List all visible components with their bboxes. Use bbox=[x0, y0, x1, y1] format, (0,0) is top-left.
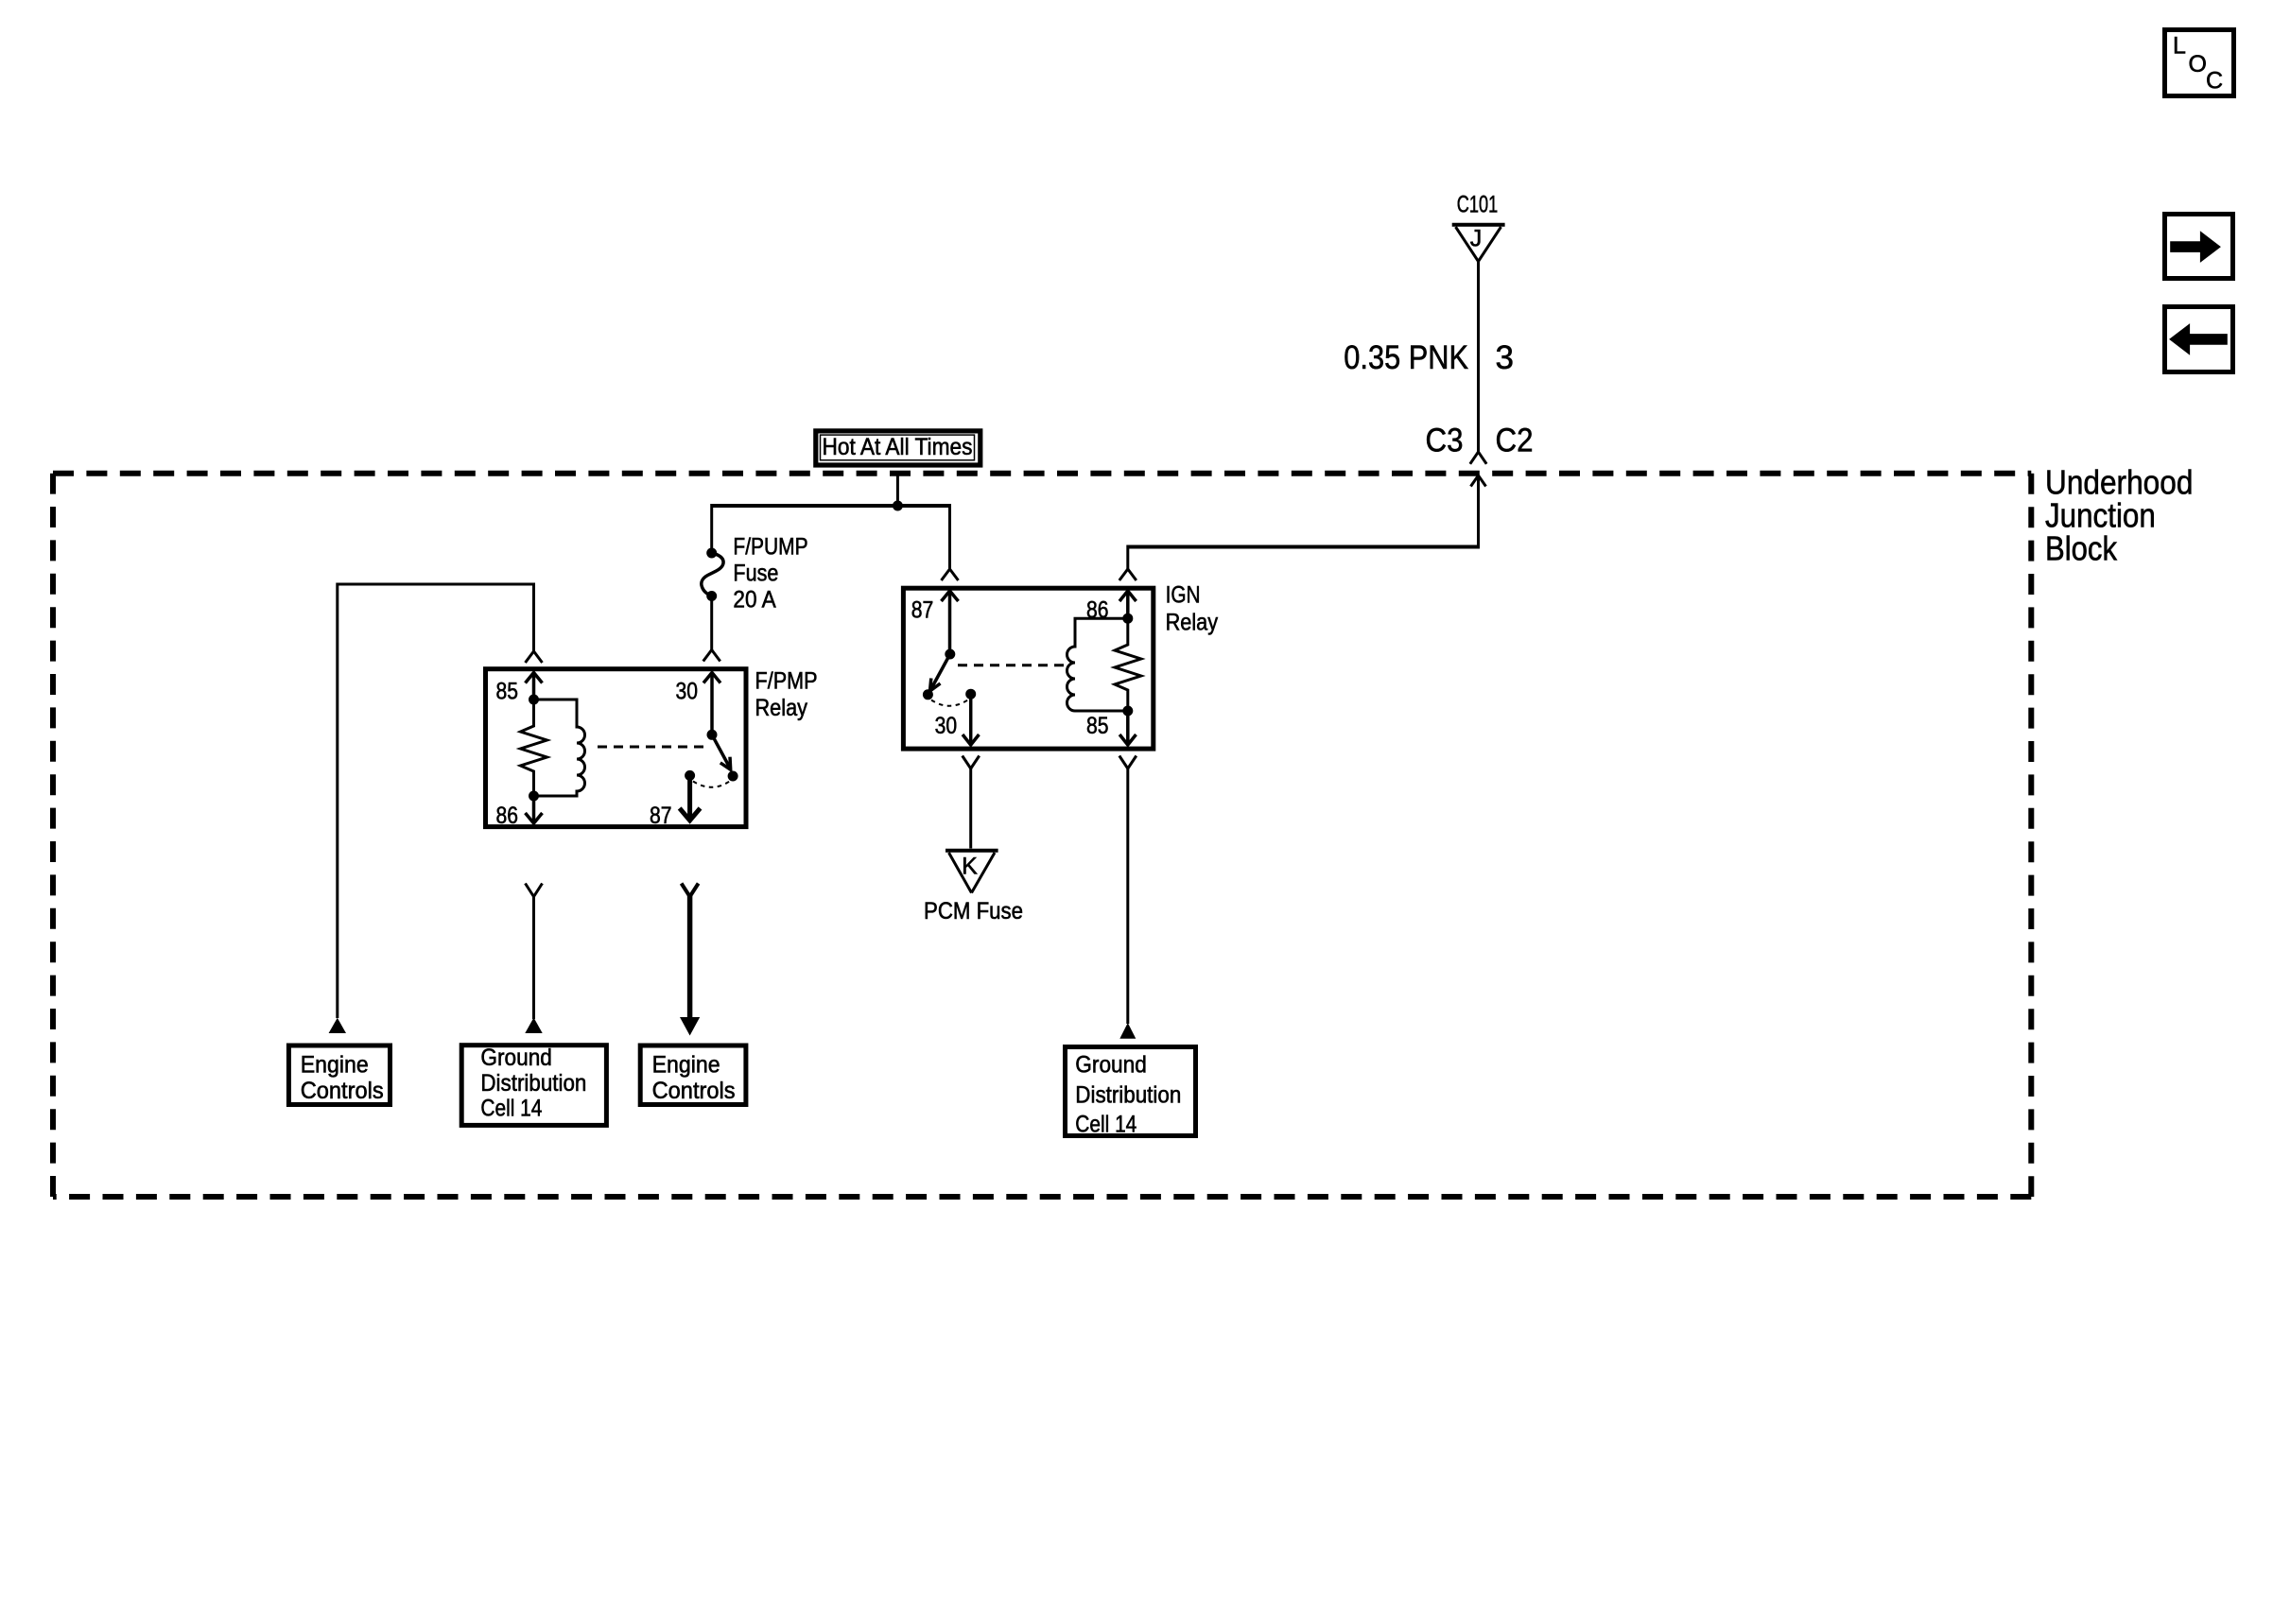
relay F/PMP box bbox=[486, 669, 747, 827]
label F/PMP Relay bbox=[755, 667, 818, 721]
connector chevron at IGN relay pin 87 bbox=[942, 569, 959, 580]
relay coil (IGN) bbox=[1067, 618, 1128, 711]
arrow into Engine Controls box (down) bbox=[680, 1017, 700, 1036]
svg-text:Engine: Engine bbox=[301, 1051, 369, 1078]
wire entering junction block with arrow bbox=[1128, 475, 1486, 569]
resistor in IGN relay bbox=[1115, 618, 1141, 711]
wire IGN pin 30 to PCM Fuse bbox=[969, 769, 972, 849]
svg-text:Engine: Engine bbox=[652, 1051, 720, 1078]
svg-text:Fuse: Fuse bbox=[733, 561, 778, 587]
label F/PUMP Fuse 20 A bbox=[733, 534, 807, 613]
connector C101 triangle J bbox=[1452, 225, 1505, 262]
svg-text:C: C bbox=[2206, 68, 2223, 95]
LOC legend icon bbox=[2165, 30, 2234, 96]
back-arrow icon bbox=[2165, 307, 2233, 372]
svg-text:Controls: Controls bbox=[652, 1078, 736, 1104]
fuse F/PUMP 20 A bbox=[702, 548, 723, 602]
svg-text:O: O bbox=[2189, 51, 2207, 78]
svg-text:0.35 PNK: 0.35 PNK bbox=[1344, 339, 1468, 376]
relay coil (F/PMP) bbox=[534, 700, 585, 796]
svg-text:J: J bbox=[1470, 226, 1483, 252]
node switch pivot dot (F/PMP) bbox=[707, 730, 718, 740]
connector chevron below F/PMP pin 86 bbox=[526, 884, 543, 897]
svg-text:C3: C3 bbox=[1426, 423, 1464, 459]
arrow into Ground Distribution Cell 14 (left) bbox=[525, 1018, 542, 1034]
wire IGN pin 85 to Ground Distribution bbox=[1126, 769, 1129, 1024]
svg-text:Relay: Relay bbox=[1166, 609, 1219, 635]
pin 85 arrow inside F/PMP relay bbox=[526, 673, 543, 700]
connector chevron at IGN relay pin 86 bbox=[1119, 569, 1136, 580]
svg-text:85: 85 bbox=[496, 678, 519, 704]
wire Engine Controls to F/PMP relay pin 85 bbox=[338, 584, 534, 1018]
svg-text:Distribution: Distribution bbox=[1075, 1082, 1181, 1109]
svg-text:85: 85 bbox=[1086, 713, 1109, 739]
node coil top dot (F/PMP) bbox=[529, 695, 539, 705]
svg-text:L: L bbox=[2173, 33, 2186, 60]
pin 30 arrow inside IGN relay bbox=[963, 694, 979, 745]
svg-text:Ground: Ground bbox=[480, 1045, 552, 1071]
Engine Controls box (left) bbox=[288, 1045, 390, 1105]
wire F/PMP pin 86 to Ground Distribution bbox=[532, 897, 535, 1020]
svg-text:F/PUMP: F/PUMP bbox=[733, 534, 807, 561]
node switch contact dot (IGN) bbox=[923, 689, 933, 700]
Ground Distribution Cell 14 box (left) bbox=[461, 1045, 606, 1125]
pin 85 arrow inside IGN relay bbox=[1119, 711, 1136, 745]
connector chevron below F/PMP pin 87 bbox=[682, 884, 699, 897]
svg-text:Controls: Controls bbox=[301, 1078, 384, 1104]
svg-text:30: 30 bbox=[935, 713, 958, 739]
svg-text:30: 30 bbox=[676, 678, 699, 704]
connector chevron at F/PMP relay pin 30 bbox=[703, 650, 720, 662]
Underhood Junction Block dashed boundary bbox=[53, 474, 2031, 1197]
connector PCM Fuse triangle K bbox=[946, 851, 998, 893]
connector chevron below IGN pin 85 bbox=[1119, 756, 1136, 769]
connector chevron below IGN pin 30 bbox=[963, 756, 980, 769]
forward-arrow icon bbox=[2165, 215, 2233, 279]
wire fuse to F/PMP relay pin 30 bbox=[710, 596, 713, 650]
node switch contact dot (F/PMP) bbox=[728, 771, 738, 782]
svg-text:Relay: Relay bbox=[755, 695, 808, 721]
svg-text:Hot At All Times: Hot At All Times bbox=[823, 434, 973, 460]
node coil top dot (IGN) bbox=[1122, 613, 1133, 624]
wire F/PMP pin 87 to Engine Controls (thick) bbox=[687, 895, 693, 1018]
node pin 30 contact dot (IGN) bbox=[965, 689, 976, 700]
svg-text:Distribution: Distribution bbox=[480, 1070, 586, 1097]
svg-text:Cell 14: Cell 14 bbox=[480, 1096, 542, 1122]
svg-text:86: 86 bbox=[496, 803, 519, 829]
node coil bottom dot (IGN) bbox=[1122, 706, 1133, 717]
node junction dot under Hot At All Times bbox=[893, 501, 903, 511]
label IGN Relay bbox=[1166, 582, 1219, 636]
svg-text:87: 87 bbox=[911, 596, 934, 623]
node coil bottom dot (F/PMP) bbox=[529, 791, 539, 802]
svg-text:F/PMP: F/PMP bbox=[755, 667, 818, 694]
wire from Hot At All Times into block bbox=[896, 471, 899, 506]
svg-text:C101: C101 bbox=[1457, 192, 1498, 218]
dashed coil-armature link (F/PMP) bbox=[598, 746, 706, 749]
svg-text:PCM Fuse: PCM Fuse bbox=[924, 898, 1023, 924]
wire power bus to fuse and IGN relay bbox=[712, 504, 950, 569]
dashed throw arc (IGN switch) bbox=[931, 700, 968, 706]
resistor in F/PMP relay bbox=[521, 700, 547, 796]
switch armature with arrow (IGN) bbox=[930, 654, 950, 691]
pin 86 arrow inside F/PMP relay bbox=[526, 796, 543, 823]
dashed throw arc (F/PMP switch) bbox=[693, 782, 730, 787]
arrow into Ground Distribution Cell 14 (right) bbox=[1119, 1023, 1136, 1039]
pin 87 arrow inside IGN relay bbox=[942, 591, 959, 654]
Engine Controls box (middle) bbox=[640, 1045, 746, 1105]
svg-text:20 A: 20 A bbox=[733, 587, 776, 613]
svg-text:Ground: Ground bbox=[1075, 1051, 1147, 1078]
Hot At All Times box bbox=[816, 431, 980, 465]
pin 86 arrow inside IGN relay bbox=[1119, 591, 1136, 618]
pin 30 arrow inside F/PMP relay bbox=[703, 673, 720, 735]
wire from C101 to junction block (0.35 PNK) bbox=[1470, 262, 1486, 464]
svg-text:Block: Block bbox=[2045, 529, 2118, 568]
dashed coil-armature link (IGN) bbox=[958, 664, 1065, 666]
label Underhood Junction Block bbox=[2045, 463, 2193, 568]
svg-text:87: 87 bbox=[650, 803, 672, 829]
node switch pivot dot (IGN) bbox=[945, 649, 955, 660]
pin 87 arrow inside F/PMP relay (thick) bbox=[680, 775, 701, 821]
connector chevron at F/PMP relay pin 85 bbox=[526, 651, 543, 663]
svg-text:C2: C2 bbox=[1496, 423, 1534, 459]
switch armature with arrow (F/PMP) bbox=[712, 734, 731, 769]
Ground Distribution Cell 14 box (right) bbox=[1066, 1047, 1196, 1138]
arrow from Engine Controls box (left, up) bbox=[329, 1018, 346, 1033]
relay IGN box bbox=[903, 588, 1153, 749]
svg-text:IGN: IGN bbox=[1166, 582, 1201, 609]
node pin 87 contact dot (F/PMP) bbox=[685, 770, 695, 781]
svg-text:Cell 14: Cell 14 bbox=[1075, 1112, 1136, 1138]
svg-text:K: K bbox=[962, 854, 978, 880]
svg-text:3: 3 bbox=[1496, 339, 1514, 376]
